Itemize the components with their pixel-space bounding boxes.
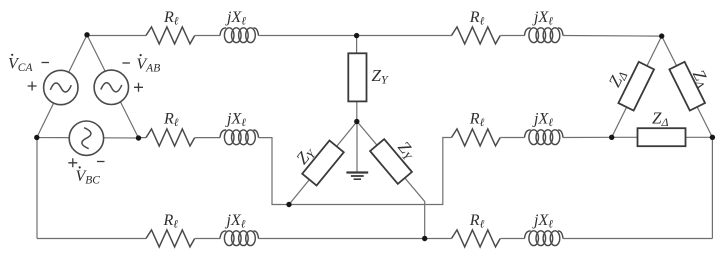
svg-text:Rℓ: Rℓ	[469, 9, 485, 28]
svg-text:jXℓ: jXℓ	[225, 110, 246, 129]
svg-text:ZΔ: ZΔ	[652, 109, 669, 130]
svg-text:Rℓ: Rℓ	[163, 9, 179, 28]
svg-text:jXℓ: jXℓ	[225, 212, 246, 231]
svg-text:jXℓ: jXℓ	[532, 110, 553, 129]
svg-text:VAB: VAB	[136, 56, 160, 75]
svg-text:VBC: VBC	[76, 168, 101, 187]
svg-text:ZY: ZY	[372, 66, 389, 87]
svg-text:Rℓ: Rℓ	[163, 212, 179, 231]
svg-text:jXℓ: jXℓ	[532, 212, 553, 231]
svg-text:Rℓ: Rℓ	[469, 212, 485, 231]
svg-text:jXℓ: jXℓ	[225, 9, 246, 28]
svg-text:Rℓ: Rℓ	[469, 110, 485, 129]
svg-text:VCA: VCA	[8, 56, 33, 75]
svg-text:jXℓ: jXℓ	[532, 9, 553, 28]
svg-text:Rℓ: Rℓ	[163, 110, 179, 129]
